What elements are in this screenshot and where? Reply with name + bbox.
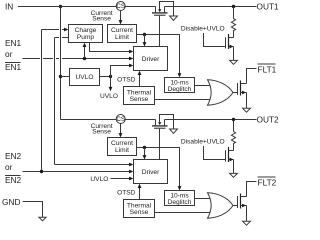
wire deglitch 2 to OR gate: [195, 198, 212, 200]
arrowhead into driver 1 bottom: [138, 71, 142, 75]
substrate triangle of Q1: [170, 16, 178, 20]
wire input rail to CS2: [61, 119, 156, 121]
wire discharge FET source to ground (ch1): [233, 47, 235, 61]
wire EN2 to Driver 2 input 2: [23, 171, 130, 173]
arrowhead into Driver 1 input 3: [129, 64, 133, 68]
transistor FLT1 open-drain FET: [238, 81, 247, 96]
resistor discharge R1: [231, 19, 235, 38]
svg-text:UVLO: UVLO: [76, 74, 94, 81]
resistor discharge R2: [231, 132, 235, 151]
svg-text:OUT2: OUT2: [257, 115, 280, 125]
wire OR2 output to FLT2 FET gate: [233, 205, 238, 207]
wire EN1 with hops over bus lines: [23, 58, 130, 60]
svg-text:or: or: [5, 49, 13, 59]
wire EN1 up into charge pump bottom: [84, 47, 86, 59]
OR gate G2: [208, 193, 234, 218]
svg-text:IN: IN: [5, 1, 13, 11]
wire FLT1 drain up to pin: [247, 69, 257, 84]
svg-text:Sense: Sense: [92, 15, 111, 22]
transistor power switch FET Q2: [152, 115, 174, 130]
svg-text:GND: GND: [2, 197, 20, 207]
svg-text:CS: CS: [116, 116, 125, 123]
wire thermal sense 2 to driver bottom: [139, 188, 141, 200]
wire UVLO output: [100, 76, 111, 78]
arrowhead UVLO down: [109, 87, 113, 91]
arrowhead into Driver 2 input 2: [129, 170, 133, 174]
wire thermal sense 2 to OR gate: [155, 212, 212, 214]
arrowhead into deglitch 1 top: [178, 73, 182, 77]
wire OUT2 to discharge resistor: [233, 120, 235, 132]
pin FLT1 label with overline: [258, 63, 276, 65]
svg-text:Disable+UVLO: Disable+UVLO: [181, 139, 225, 146]
charge pump box: [69, 25, 103, 43]
arrowhead into charge pump input 1: [64, 28, 68, 32]
svg-text:Driver: Driver: [142, 169, 160, 176]
node EN1 branch to charge pump: [83, 57, 86, 60]
ground triangle at GND pin: [39, 217, 46, 221]
svg-text:Driver: Driver: [142, 56, 160, 63]
svg-text:Deglitch: Deglitch: [168, 199, 192, 206]
driver box DRV1: [134, 47, 168, 71]
arrowhead into Driver 1 input 2: [129, 57, 133, 61]
svg-text:UVLO: UVLO: [90, 176, 108, 183]
wire CS2 to current limit: [120, 124, 122, 134]
node UVLO tap on IN bus: [59, 75, 62, 78]
current sense circle CS1: [116, 2, 125, 11]
arrowhead into current limit 2 top: [119, 133, 123, 137]
arrowhead into charge pump bottom: [83, 43, 87, 47]
wire disable elbow to discharge FET gate (ch2): [204, 146, 226, 160]
wire gate of Q1 to driver: [159, 16, 161, 47]
node IN bus junction on rail: [59, 5, 62, 8]
arrowhead into Driver 1 input 1: [129, 50, 133, 54]
wire current limit 1 output to driver and deglitch: [137, 35, 180, 74]
transistor discharge FET (ch2): [226, 147, 234, 162]
wire FLT1 FET source to ground: [246, 93, 248, 109]
transistor FLT2 open-drain FET: [238, 194, 247, 209]
svg-text:OTSD: OTSD: [117, 76, 136, 83]
svg-text:Disable+UVLO: Disable+UVLO: [181, 26, 225, 33]
OR gate G1: [208, 80, 234, 105]
thermal sense box TS2: [124, 200, 155, 218]
wire input rail to CS1: [18, 6, 156, 8]
wire current limit 2 output to driver and deglitch: [137, 148, 180, 187]
svg-text:OUT1: OUT1: [257, 2, 280, 12]
wire OR1 output to FLT1 FET gate: [233, 92, 238, 94]
svg-text:EN1: EN1: [5, 38, 22, 48]
arrowhead into driver 1 top: [143, 42, 147, 46]
wire discharge FET source to ground (ch2): [233, 160, 235, 174]
wire thermal sense 1 to driver bottom: [139, 75, 141, 87]
svg-text:OTSD: OTSD: [117, 189, 136, 196]
arrowhead into Driver 2 input 1: [129, 163, 133, 167]
wire gate of Q2 to driver: [159, 129, 161, 160]
wire CL1 to driver top: [144, 35, 146, 43]
current limit box CL2: [108, 138, 137, 156]
arrowhead into deglitch 2 top: [178, 186, 182, 190]
ground triangle under FLT1 FET: [243, 108, 251, 112]
arrowhead into driver 2 bottom: [138, 184, 142, 188]
wire UVLO to Driver 1 input 3: [111, 66, 130, 77]
node CL1 output junction: [143, 33, 146, 36]
svg-text:or: or: [5, 162, 13, 172]
svg-text:Sense: Sense: [130, 209, 149, 216]
arrowhead into driver 2 top: [143, 155, 147, 159]
wire FLT2 drain up to pin: [247, 182, 257, 197]
pin FLT2 label with overline: [258, 176, 276, 178]
transistor discharge FET (ch1): [226, 34, 234, 49]
wire EN2 to charge pump input 1 (left bus): [42, 30, 65, 172]
substrate triangle of Q2: [170, 129, 178, 133]
thermal sense box TS1: [124, 87, 155, 105]
svg-text:EN1: EN1: [5, 62, 22, 72]
wire UVLO signal down toward channel 2: [110, 77, 112, 88]
svg-text:UVLO: UVLO: [100, 93, 118, 100]
transistor power switch FET Q1: [152, 2, 174, 17]
wire OUT1 to discharge resistor: [233, 7, 235, 19]
wire UVLO label to Driver 2 input 3: [111, 178, 130, 180]
wire OUT1 rail: [165, 6, 257, 8]
wire CS1 to current limit: [120, 11, 122, 21]
wire IN bus down to UVLO and channel 2: [60, 7, 62, 120]
arrowhead into Driver 2 input 3: [129, 177, 133, 181]
svg-text:FLT2: FLT2: [258, 178, 277, 188]
wire GND: [23, 202, 43, 218]
wire CL2 to driver top: [144, 148, 146, 156]
ground triangle under discharge FET (ch2): [230, 173, 238, 177]
node UVLO output junction: [109, 75, 112, 78]
svg-text:Sense: Sense: [92, 128, 111, 135]
svg-text:Limit: Limit: [115, 147, 129, 154]
driver box DRV2: [134, 160, 168, 184]
wire IN bus to UVLO box: [61, 76, 70, 78]
deglitch box DG2: [165, 191, 195, 206]
wire charge pump output down to Driver 2 input 1: [55, 38, 130, 165]
wire thermal sense 1 to OR gate: [155, 99, 212, 101]
node OUT1 junction: [232, 5, 235, 8]
deglitch box DG1: [165, 78, 195, 93]
node OUT2 junction: [232, 118, 235, 121]
wire OUT2 rail: [165, 119, 257, 121]
current limit box CL1: [108, 25, 137, 43]
node EN2 junction to charge pump bus: [40, 170, 43, 173]
svg-text:Deglitch: Deglitch: [168, 86, 192, 93]
svg-text:Sense: Sense: [130, 96, 149, 103]
ground triangle under FLT2 FET: [243, 221, 251, 225]
UVLO box: [70, 69, 100, 86]
wire disable elbow to discharge FET gate (ch1): [204, 33, 226, 47]
svg-text:CS: CS: [116, 3, 125, 10]
wire FLT2 FET source to ground: [246, 206, 248, 222]
ground triangle under discharge FET (ch1): [230, 60, 238, 64]
svg-text:Pump: Pump: [77, 34, 95, 41]
current sense circle CS2: [116, 115, 125, 124]
node CL2 output junction: [143, 146, 146, 149]
arrowhead into current limit 1 top: [119, 20, 123, 24]
svg-text:FLT1: FLT1: [258, 65, 277, 75]
svg-text:EN2: EN2: [5, 151, 22, 161]
wire deglitch 1 to OR gate: [195, 85, 212, 87]
svg-text:EN2: EN2: [5, 175, 22, 185]
svg-text:Limit: Limit: [115, 34, 129, 41]
wire charge pump output to Driver 1 input 1: [90, 43, 130, 52]
